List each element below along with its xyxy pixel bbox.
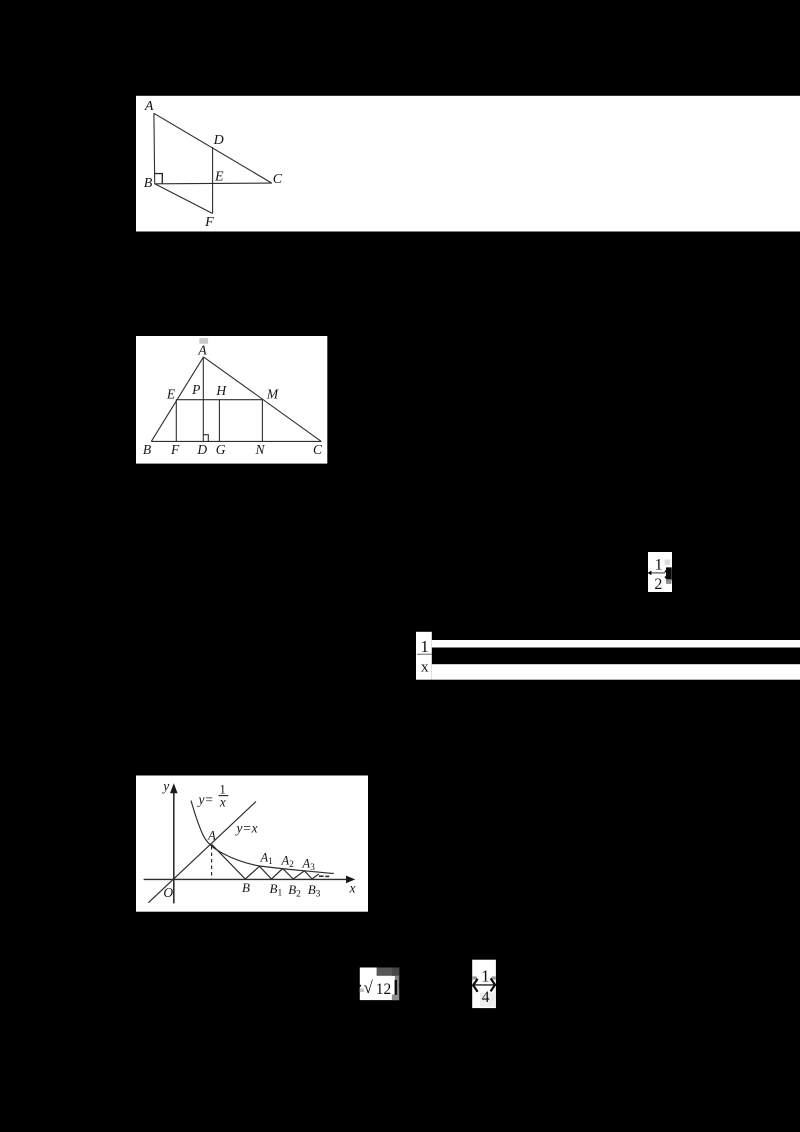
svg-text:12: 12 (376, 981, 392, 998)
segment EF vertical fig2 (175, 400, 177, 442)
y axis arrowhead fig3 (170, 783, 178, 793)
x axis arrowhead fig3 (346, 876, 355, 884)
svg-text:F: F (204, 215, 214, 230)
figure 1 drawing (154, 113, 272, 213)
svg-text:y: y (161, 779, 169, 794)
dashed altitude from A fig3 (211, 846, 213, 879)
svg-text:A: A (207, 829, 216, 843)
sqrt twelve white box (360, 968, 399, 1001)
figure 3 white panel (136, 776, 368, 912)
svg-text:D: D (196, 442, 207, 457)
y axis fig3 (173, 789, 175, 903)
svg-text:√: √ (364, 978, 374, 997)
svg-text:A: A (197, 343, 207, 358)
segment EM fig2 (176, 399, 262, 401)
sqrt twelve right gray strip (395, 976, 399, 995)
quarter fraction left angle bracket (473, 979, 477, 992)
half fraction left arrowhead (648, 571, 652, 576)
svg-text:G: G (216, 442, 226, 457)
svg-text:M: M (266, 387, 279, 402)
quarter fraction left gray patch above (472, 976, 477, 979)
svg-text:2: 2 (654, 576, 662, 593)
segment AC fig2 (204, 357, 322, 442)
svg-text:C: C (273, 172, 283, 187)
bottom white strip (432, 664, 800, 680)
svg-text:B: B (144, 176, 153, 191)
gray smudge above apex fig2 (199, 338, 208, 344)
svg-text:F: F (170, 442, 180, 457)
sqrt twelve left light square (360, 988, 364, 992)
segment AB (153, 113, 156, 184)
segment MN vertical fig2 (261, 400, 263, 442)
svg-text:N: N (254, 442, 265, 457)
half fraction white box (648, 552, 672, 592)
svg-text:1: 1 (420, 637, 429, 656)
sqrt twelve darker top right corner (392, 968, 399, 976)
svg-text:y=x: y=x (235, 821, 258, 836)
svg-text:B: B (242, 880, 250, 895)
figure 1 white panel (136, 96, 800, 232)
half fraction gray square under blob (666, 579, 671, 584)
right angle mark at B (155, 174, 162, 184)
segment DF through E (212, 147, 214, 213)
sqrt twelve bottom right gray (392, 995, 399, 1001)
segment GH vertical fig2 (218, 400, 220, 442)
figure 3 drawing (144, 789, 350, 903)
half fraction bar (650, 572, 665, 574)
svg-text:1: 1 (655, 557, 663, 574)
svg-text:y=: y= (197, 792, 214, 807)
svg-text:x: x (349, 880, 356, 895)
half fraction right black blob (665, 567, 672, 580)
fraction bar of y equals one over x label (219, 795, 229, 797)
quarter fraction bar (474, 984, 494, 986)
svg-text:1: 1 (481, 966, 490, 985)
segment AD vertical fig2 (202, 357, 204, 442)
svg-text:O: O (163, 885, 173, 900)
right angle mark at D fig2 (203, 435, 208, 442)
sqrt twelve left nub (359, 985, 361, 987)
quarter fraction white box (472, 960, 496, 1008)
segment BA fig2 (151, 357, 203, 442)
svg-text:4: 4 (482, 989, 490, 1006)
svg-text:B: B (143, 442, 151, 457)
x axis fig3 (144, 878, 350, 880)
svg-text:E: E (214, 170, 224, 185)
svg-text:P: P (191, 382, 200, 397)
svg-text:x: x (219, 795, 226, 810)
quarter fraction right angle bracket (491, 978, 495, 991)
segment BF (155, 184, 213, 214)
top white strip (432, 640, 800, 648)
base BC fig2 (151, 440, 321, 442)
half fraction light smudge (665, 560, 671, 565)
sqrt twelve right nub (399, 985, 401, 987)
one over x bar (417, 653, 432, 655)
segment BC (155, 182, 272, 185)
zigzag polyline fig3 (212, 844, 319, 879)
segment AC through D (154, 113, 272, 183)
continuation dashes fig3 (319, 875, 324, 877)
svg-text:x: x (421, 660, 429, 676)
svg-text:C: C (313, 442, 323, 457)
svg-text:E: E (166, 386, 176, 401)
hyperbola curve fig3 (191, 801, 334, 874)
one over x white box (416, 632, 432, 680)
sqrt twelve dark top band (377, 968, 400, 976)
quarter fraction right gray patch above (492, 976, 496, 979)
svg-text:H: H (215, 383, 227, 398)
sqrt twelve black bar (395, 980, 397, 995)
svg-text:D: D (213, 133, 224, 148)
svg-text:A: A (144, 99, 154, 114)
quarter fraction light gray bottom right (480, 993, 496, 1007)
line y equals x fig3 (148, 802, 256, 903)
figure 2 drawing (151, 357, 321, 442)
figure 2 white panel (136, 336, 327, 464)
